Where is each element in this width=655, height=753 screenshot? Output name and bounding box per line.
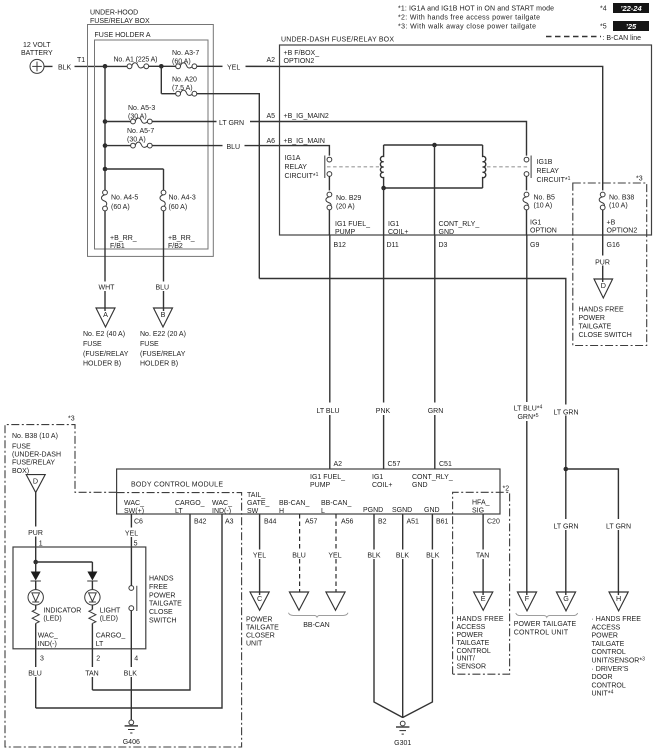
svg-text:WHT: WHT bbox=[99, 285, 116, 292]
svg-text:PNK: PNK bbox=[376, 408, 391, 415]
svg-text:3: 3 bbox=[40, 656, 44, 663]
svg-text:BLK: BLK bbox=[396, 553, 410, 560]
svg-text:A2: A2 bbox=[334, 461, 343, 468]
svg-text:TAILGATE: TAILGATE bbox=[457, 640, 490, 647]
LED indicator lamp bbox=[35, 581, 37, 590]
svg-text:CONT_RLY_: CONT_RLY_ bbox=[412, 474, 453, 481]
svg-text:BODY CONTROL MODULE: BODY CONTROL MODULE bbox=[131, 482, 223, 489]
wire vertical feed in fuse holder bbox=[104, 66, 106, 169]
svg-text:OPTION2: OPTION2 bbox=[284, 58, 315, 65]
svg-text:E: E bbox=[481, 594, 486, 603]
svg-text:*3: *3 bbox=[68, 416, 75, 423]
connector BB-CAN H bbox=[289, 592, 308, 610]
svg-text:DOOR: DOOR bbox=[592, 674, 613, 681]
svg-text:No. B38 (10 A): No. B38 (10 A) bbox=[12, 433, 58, 440]
fuse No. B5 (10 A) bbox=[526, 176, 528, 190]
svg-text:(UNDER-DASH: (UNDER-DASH bbox=[12, 452, 61, 459]
svg-text:SGND: SGND bbox=[392, 507, 412, 514]
wire +B F/BOX_OPTION2 to B38 bbox=[280, 66, 603, 190]
svg-text:CLOSE: CLOSE bbox=[149, 609, 173, 616]
svg-text:C6: C6 bbox=[134, 518, 143, 525]
svg-text:TAILGATE: TAILGATE bbox=[579, 324, 612, 331]
svg-text:No. A5-3: No. A5-3 bbox=[128, 105, 155, 112]
node junction A5-3 bbox=[103, 119, 108, 124]
svg-text:G301: G301 bbox=[394, 740, 411, 747]
svg-text:A6: A6 bbox=[266, 138, 275, 145]
svg-text:No. E2 (40 A): No. E2 (40 A) bbox=[83, 331, 125, 338]
svg-text:(LED): (LED) bbox=[43, 615, 61, 622]
svg-text:(FUSE/RELAY: (FUSE/RELAY bbox=[140, 351, 186, 358]
wire GRN D3 to BCM C51 bbox=[434, 235, 436, 469]
svg-text:HOLDER B): HOLDER B) bbox=[140, 361, 178, 368]
svg-text:*3: *3 bbox=[636, 176, 643, 183]
svg-text:: B-CAN line: : B-CAN line bbox=[603, 35, 642, 42]
svg-text:HANDS FREE: HANDS FREE bbox=[579, 307, 624, 314]
svg-text:D11: D11 bbox=[387, 242, 399, 249]
svg-text:+B F/BOX_: +B F/BOX_ bbox=[284, 50, 320, 57]
svg-text:CONTROL UNIT: CONTROL UNIT bbox=[514, 629, 569, 636]
wire BLK B61 to G301 bbox=[403, 514, 433, 718]
wire TAN C20 to connector E bbox=[482, 514, 484, 595]
svg-text:BLK: BLK bbox=[124, 671, 138, 678]
svg-text:TAN: TAN bbox=[85, 671, 98, 678]
svg-text:G9: G9 bbox=[530, 242, 539, 249]
ground G406 bbox=[129, 720, 134, 725]
svg-text:D: D bbox=[601, 281, 606, 290]
relay IG1A link (dashed) bbox=[327, 166, 379, 168]
svg-text:SW: SW bbox=[247, 508, 259, 515]
svg-text:BB-CAN: BB-CAN bbox=[303, 622, 329, 629]
pin 4 bbox=[130, 649, 132, 720]
svg-text:OPTION2: OPTION2 bbox=[607, 228, 638, 235]
node junction A3-7/A20 branch bbox=[148, 65, 176, 67]
svg-text:No. A5-7: No. A5-7 bbox=[127, 128, 154, 135]
svg-text:UNIT/SENSOR*3: UNIT/SENSOR*3 bbox=[592, 657, 646, 665]
wire BLU to connector B bbox=[163, 211, 165, 311]
svg-text:· HANDS FREE: · HANDS FREE bbox=[592, 616, 642, 623]
svg-text:TAILGATE: TAILGATE bbox=[149, 601, 182, 608]
svg-text:A57: A57 bbox=[305, 518, 318, 525]
svg-text:POWER: POWER bbox=[246, 616, 272, 623]
svg-text:SIG: SIG bbox=[472, 508, 484, 515]
connector F bbox=[517, 592, 536, 611]
svg-text:BB-CAN_: BB-CAN_ bbox=[279, 500, 309, 507]
svg-text:HFA_: HFA_ bbox=[472, 500, 490, 507]
svg-text:L: L bbox=[321, 508, 325, 515]
wire BB-CAN L (YEL dashed) bbox=[335, 514, 337, 592]
svg-text:GRN: GRN bbox=[428, 408, 444, 415]
node junction at A1 input bbox=[103, 64, 108, 69]
svg-text:B12: B12 bbox=[334, 242, 347, 249]
svg-text:GND: GND bbox=[439, 229, 455, 236]
svg-text:PUMP: PUMP bbox=[310, 482, 331, 489]
svg-text:C20: C20 bbox=[487, 518, 500, 525]
svg-text:IG1 FUEL_: IG1 FUEL_ bbox=[310, 474, 345, 481]
svg-text:BOX): BOX) bbox=[12, 468, 29, 475]
svg-text:PUR: PUR bbox=[595, 260, 610, 267]
svg-text:GATE_: GATE_ bbox=[247, 500, 270, 507]
svg-text:CONTROL: CONTROL bbox=[592, 649, 626, 656]
fuse No. B29 (20 A) bbox=[328, 176, 330, 190]
svg-text:ACCESS: ACCESS bbox=[592, 624, 621, 631]
svg-text:G: G bbox=[563, 594, 569, 603]
svg-text:BATTERY: BATTERY bbox=[21, 50, 53, 57]
svg-text:FUSE: FUSE bbox=[83, 341, 102, 348]
svg-text:CLOSER: CLOSER bbox=[246, 632, 275, 639]
option box *3 (hands free close switch) bbox=[573, 183, 647, 346]
svg-text:B61: B61 bbox=[436, 518, 449, 525]
svg-text:UNIT/: UNIT/ bbox=[457, 656, 475, 663]
svg-text:FUSE/RELAY BOX: FUSE/RELAY BOX bbox=[90, 18, 150, 25]
svg-text:INDICATOR: INDICATOR bbox=[43, 608, 81, 615]
wire coil top bus bbox=[384, 144, 483, 146]
svg-text:COIL+: COIL+ bbox=[388, 229, 408, 236]
svg-text:(LED): (LED) bbox=[100, 615, 118, 622]
node junction A5-7 bbox=[103, 143, 108, 148]
svg-text:No. B5: No. B5 bbox=[534, 194, 556, 201]
svg-text:(10 A): (10 A) bbox=[534, 203, 553, 210]
pin 3 bbox=[35, 649, 37, 708]
svg-text:SW(+): SW(+) bbox=[124, 508, 144, 515]
relay IG1B link (dashed) bbox=[487, 166, 529, 168]
node junction LED feed bbox=[33, 560, 38, 565]
svg-text:D: D bbox=[33, 476, 38, 485]
relay IG1A contact bbox=[327, 157, 332, 162]
wire +B_IG_MAIN2 to IG1B contact bbox=[280, 122, 527, 156]
svg-text:WAC_: WAC_ bbox=[38, 633, 58, 640]
wire +B_IG_MAIN to IG1A contact bbox=[280, 146, 330, 156]
svg-text:BLU: BLU bbox=[156, 285, 170, 292]
svg-text:RELAY: RELAY bbox=[537, 168, 560, 175]
switch unit box (indicator/light/close switch) bbox=[13, 547, 146, 649]
svg-text:TAILGATE: TAILGATE bbox=[246, 624, 279, 631]
pin 5 bbox=[133, 539, 139, 547]
connector B bbox=[154, 308, 173, 327]
svg-text:COIL+: COIL+ bbox=[372, 482, 392, 489]
svg-text:+B_RR_: +B_RR_ bbox=[110, 235, 137, 242]
svg-text:H: H bbox=[279, 508, 284, 515]
svg-text:SWITCH: SWITCH bbox=[149, 618, 177, 625]
svg-text:’22-24: ’22-24 bbox=[620, 4, 642, 13]
svg-text:FUSE: FUSE bbox=[12, 443, 31, 450]
svg-text:UNDER-HOOD: UNDER-HOOD bbox=[90, 10, 138, 17]
svg-text:LT GRN: LT GRN bbox=[553, 524, 578, 531]
wire BLK A51 to G301 bbox=[402, 514, 404, 718]
svg-text:B2: B2 bbox=[378, 518, 387, 525]
svg-text:YEL: YEL bbox=[328, 553, 341, 560]
relay IG1B coil bbox=[483, 145, 486, 188]
svg-text:+B: +B bbox=[607, 220, 616, 227]
svg-text:IG1A: IG1A bbox=[285, 155, 301, 162]
svg-text:LT GRN: LT GRN bbox=[553, 409, 578, 416]
svg-text:BLK: BLK bbox=[367, 553, 381, 560]
svg-text:T1: T1 bbox=[77, 57, 85, 64]
svg-text:CIRCUIT*1: CIRCUIT*1 bbox=[537, 176, 571, 184]
pin 2 bbox=[91, 649, 93, 690]
wire BLU pin3 to BCM A3 bbox=[36, 514, 222, 708]
svg-text:POWER: POWER bbox=[457, 632, 483, 639]
svg-text:12 VOLT: 12 VOLT bbox=[23, 42, 51, 49]
connector D (to close switch) bbox=[594, 279, 613, 298]
wire LT GRN branch to connector H bbox=[566, 469, 619, 595]
wire battery to T1 (BLK) bbox=[44, 65, 127, 67]
connector A bbox=[96, 308, 115, 327]
switch SW1 close switch contact bbox=[129, 586, 134, 591]
svg-text:GND: GND bbox=[424, 507, 440, 514]
svg-text:WAC_: WAC_ bbox=[124, 500, 144, 507]
legend B-CAN line sample bbox=[546, 36, 601, 38]
svg-text:WAC_: WAC_ bbox=[212, 500, 232, 507]
svg-text:CONTROL: CONTROL bbox=[457, 648, 491, 655]
wire B38 to G16 bbox=[602, 210, 604, 235]
wire YEL to A2 bbox=[197, 65, 280, 67]
relay IG1A coil bbox=[380, 145, 383, 188]
brace F-G power tailgate control unit bbox=[516, 613, 578, 617]
svg-text:FREE: FREE bbox=[149, 584, 168, 591]
svg-text:PGND: PGND bbox=[363, 507, 383, 514]
svg-text:POWER: POWER bbox=[149, 592, 175, 599]
svg-text:(30 A): (30 A) bbox=[128, 113, 147, 120]
svg-text:HANDS: HANDS bbox=[149, 576, 174, 583]
svg-text:H: H bbox=[616, 594, 621, 603]
wire PUR G16 to connector D bbox=[602, 235, 604, 282]
svg-text:YEL: YEL bbox=[125, 531, 138, 538]
svg-text:LT BLU*4: LT BLU*4 bbox=[514, 405, 543, 413]
wire coil bottom bus bbox=[384, 187, 483, 189]
connector H bbox=[609, 592, 628, 611]
svg-text:A5: A5 bbox=[266, 113, 275, 120]
resistor R1 bbox=[35, 605, 37, 610]
resistor R2 bbox=[91, 605, 93, 610]
svg-text:CIRCUIT*1: CIRCUIT*1 bbox=[285, 172, 319, 180]
svg-text:LT GRN: LT GRN bbox=[219, 120, 244, 127]
svg-text:POWER: POWER bbox=[592, 633, 618, 640]
svg-text:*2: *2 bbox=[503, 486, 510, 493]
svg-text:LT: LT bbox=[175, 508, 183, 515]
svg-text:IG1: IG1 bbox=[388, 221, 399, 228]
svg-text:A2: A2 bbox=[266, 57, 275, 64]
diode D1 (indicator) bbox=[31, 572, 41, 581]
connector BB-CAN L bbox=[326, 592, 345, 610]
svg-text:A3: A3 bbox=[225, 518, 234, 525]
svg-text:GRN*5: GRN*5 bbox=[517, 413, 538, 421]
svg-text:(60 A): (60 A) bbox=[169, 204, 188, 211]
svg-text:F/B2: F/B2 bbox=[168, 243, 183, 250]
svg-text:LT BLU: LT BLU bbox=[316, 408, 339, 415]
svg-text:IG1: IG1 bbox=[372, 474, 383, 481]
svg-text:No. A3-7: No. A3-7 bbox=[172, 50, 199, 57]
svg-text:TAN: TAN bbox=[476, 553, 489, 560]
svg-text:FUSE/RELAY: FUSE/RELAY bbox=[12, 460, 55, 467]
svg-text:G16: G16 bbox=[607, 242, 620, 249]
svg-text:C57: C57 bbox=[388, 461, 401, 468]
svg-text:LIGHT: LIGHT bbox=[100, 608, 121, 615]
svg-text:· DRIVER’S: · DRIVER’S bbox=[592, 666, 629, 673]
svg-text:IG1B: IG1B bbox=[537, 159, 553, 166]
svg-text:YEL: YEL bbox=[253, 553, 266, 560]
svg-text:2: 2 bbox=[96, 656, 100, 663]
wire LT BLU B12 to BCM A2 bbox=[329, 235, 331, 469]
brace BB-CAN bbox=[289, 613, 349, 617]
svg-text:B44: B44 bbox=[264, 518, 277, 525]
connector C power tailgate closer unit bbox=[250, 592, 269, 610]
svg-text:RELAY: RELAY bbox=[285, 164, 308, 171]
svg-text:YEL: YEL bbox=[227, 65, 240, 72]
svg-text:BLU: BLU bbox=[28, 671, 42, 678]
svg-text:*2: With hands free access pow: *2: With hands free access power tailgat… bbox=[398, 15, 540, 22]
svg-text:No. E22 (20 A): No. E22 (20 A) bbox=[140, 331, 186, 338]
svg-text:OPTION: OPTION bbox=[530, 228, 557, 235]
LED cargo light lamp bbox=[91, 581, 93, 590]
svg-text:IG1: IG1 bbox=[530, 220, 541, 227]
wire LT GRN to A5 bbox=[152, 121, 280, 123]
svg-text:No. A4-3: No. A4-3 bbox=[169, 195, 196, 202]
diode D2 (light) bbox=[87, 572, 97, 581]
wire YEL B44 to connector C bbox=[259, 514, 261, 595]
svg-text:+B_IG_MAIN: +B_IG_MAIN bbox=[284, 138, 325, 145]
connector D (from fuse B38) bbox=[26, 475, 45, 493]
svg-text:*1: IG1A and IG1B HOT in ON an: *1: IG1A and IG1B HOT in ON and START mo… bbox=[398, 6, 554, 13]
svg-text:B: B bbox=[161, 310, 166, 319]
svg-text:4: 4 bbox=[134, 656, 138, 663]
svg-text:No. B29: No. B29 bbox=[336, 195, 361, 202]
wire LT GRN feed to connector G bbox=[259, 279, 566, 596]
wire B5 to G9 bbox=[526, 210, 528, 235]
svg-text:UNIT: UNIT bbox=[246, 640, 263, 647]
svg-text:PUR: PUR bbox=[28, 530, 43, 537]
svg-text:+B_RR_: +B_RR_ bbox=[168, 235, 195, 242]
svg-text:IG1 FUEL_: IG1 FUEL_ bbox=[335, 221, 370, 228]
option *3 boundary inside BCM bbox=[117, 493, 242, 514]
svg-text:TAILGATE: TAILGATE bbox=[592, 641, 625, 648]
svg-text:ACCESS: ACCESS bbox=[457, 624, 486, 631]
svg-text:FUSE HOLDER A: FUSE HOLDER A bbox=[95, 32, 151, 39]
svg-text:(30 A): (30 A) bbox=[127, 137, 146, 144]
svg-text:C: C bbox=[257, 594, 262, 603]
wire YEL C6 to pin 5 bbox=[130, 514, 132, 586]
svg-text:SENSOR: SENSOR bbox=[457, 663, 487, 670]
svg-text:LT: LT bbox=[96, 641, 104, 648]
wire PUR connector D to pin 1 bbox=[35, 493, 37, 563]
svg-text:’25: ’25 bbox=[626, 22, 637, 31]
svg-text:UNDER-DASH FUSE/RELAY BOX: UNDER-DASH FUSE/RELAY BOX bbox=[281, 37, 394, 44]
svg-text:CONTROL: CONTROL bbox=[592, 682, 626, 689]
svg-text:HANDS FREE: HANDS FREE bbox=[457, 616, 504, 623]
wire BB-CAN H (BLU dashed) bbox=[299, 514, 301, 592]
svg-text:HOLDER B): HOLDER B) bbox=[83, 361, 121, 368]
svg-text:C51: C51 bbox=[439, 461, 452, 468]
svg-text:CARGO_: CARGO_ bbox=[175, 500, 205, 507]
svg-text:BLU: BLU bbox=[227, 144, 241, 151]
fuse No. A4-5 (60 A) vertical bbox=[163, 169, 165, 190]
svg-text:CLOSE SWITCH: CLOSE SWITCH bbox=[579, 332, 632, 339]
svg-text:BLK: BLK bbox=[58, 64, 72, 71]
node junction coil top / CONT_RLY_GND bbox=[432, 143, 437, 148]
svg-text:*3: With walk away close power: *3: With walk away close power tailgate bbox=[398, 24, 536, 31]
svg-text:FUSE: FUSE bbox=[140, 341, 159, 348]
svg-text:BB-CAN_: BB-CAN_ bbox=[321, 500, 351, 507]
ground G301 bbox=[400, 721, 405, 726]
wire WHT to connector A bbox=[104, 211, 106, 311]
svg-text:No. A4-5: No. A4-5 bbox=[111, 195, 138, 202]
body control module U1 bbox=[117, 469, 500, 514]
svg-text:LT GRN: LT GRN bbox=[606, 524, 631, 531]
svg-text:POWER TAILGATE: POWER TAILGATE bbox=[514, 621, 577, 628]
svg-text:POWER: POWER bbox=[579, 315, 605, 322]
svg-text:F/B1: F/B1 bbox=[110, 243, 125, 250]
svg-text:GND: GND bbox=[412, 482, 428, 489]
svg-text:No. A20: No. A20 bbox=[172, 77, 197, 84]
wire A20 output to LT GRN feed bbox=[197, 94, 260, 279]
svg-text:+B_IG_MAIN2: +B_IG_MAIN2 bbox=[284, 113, 329, 120]
svg-text:TAIL_: TAIL_ bbox=[247, 492, 265, 499]
wire BLK B2 to G301 bbox=[374, 514, 403, 718]
svg-text:(FUSE/RELAY: (FUSE/RELAY bbox=[83, 351, 129, 358]
wire B29 to B12 bbox=[328, 210, 330, 235]
svg-text:IND(-): IND(-) bbox=[38, 641, 57, 648]
svg-text:A51: A51 bbox=[407, 518, 420, 525]
svg-text:BLK: BLK bbox=[426, 553, 440, 560]
svg-text:A56: A56 bbox=[341, 518, 354, 525]
svg-text:A: A bbox=[103, 310, 108, 319]
svg-text:*5: *5 bbox=[600, 24, 607, 31]
wire BLU to A6 bbox=[152, 145, 280, 147]
svg-text:IND(-): IND(-) bbox=[212, 508, 231, 515]
connector E hands free access control unit bbox=[474, 592, 493, 610]
svg-text:(20 A): (20 A) bbox=[336, 203, 355, 210]
relay IG1B contact bbox=[524, 157, 529, 162]
svg-text:F: F bbox=[525, 594, 530, 603]
svg-text:CONT_RLY_: CONT_RLY_ bbox=[439, 221, 480, 228]
svg-text:No. B38: No. B38 bbox=[609, 194, 634, 201]
svg-text:CARGO_: CARGO_ bbox=[96, 633, 126, 640]
battery BAT1 12 volt bbox=[21, 42, 53, 73]
fuse No. A4-3 (60 A) vertical bbox=[160, 195, 165, 208]
node junction A4 feed bbox=[103, 167, 108, 172]
svg-text:(10 A): (10 A) bbox=[609, 203, 628, 210]
svg-text:*4: *4 bbox=[600, 6, 607, 13]
svg-text:D3: D3 bbox=[439, 242, 448, 249]
node junction LT GRN branch bbox=[564, 467, 569, 472]
wire TAN pin2 to BCM B42 bbox=[92, 514, 190, 690]
node junction coil bottom / IG1 COIL+ bbox=[381, 186, 386, 191]
wire LT BLU*4/GRN*5 G9 to connector F bbox=[526, 235, 528, 595]
svg-text:G406: G406 bbox=[123, 739, 140, 746]
svg-text:PUMP: PUMP bbox=[335, 229, 356, 236]
svg-text:BLU: BLU bbox=[292, 553, 306, 560]
fuse No. B38 (10 A) bbox=[599, 197, 604, 209]
svg-text:B42: B42 bbox=[194, 518, 207, 525]
svg-text:UNIT*4: UNIT*4 bbox=[592, 690, 614, 698]
connector G bbox=[556, 592, 575, 611]
svg-text:(60 A): (60 A) bbox=[111, 204, 130, 211]
wire PNK D11 to BCM C57 bbox=[383, 235, 385, 469]
wire A20 branch drop bbox=[160, 66, 162, 93]
